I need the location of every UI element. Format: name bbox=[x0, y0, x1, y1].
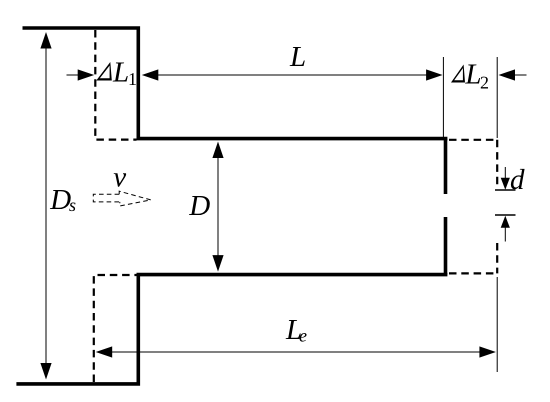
dimension dL2: right tail bbox=[513, 74, 527, 76]
label D bbox=[189, 196, 210, 215]
dimension D: top arrowhead bbox=[212, 142, 223, 159]
dimension d: bottom tick bbox=[495, 214, 516, 216]
dimension dL2: right arrowhead pointing left bbox=[499, 69, 516, 80]
wall: top-right end stub bbox=[444, 139, 448, 194]
dimension dL2: right extension line bbox=[496, 57, 498, 138]
dimension D: vertical line bbox=[217, 152, 219, 260]
dimension Le: horizontal line bbox=[100, 351, 491, 353]
label Ds bbox=[50, 190, 71, 209]
label L bbox=[290, 47, 305, 66]
dashed extension: right vertical lower segment bbox=[496, 243, 498, 273]
dimension L: horizontal line bbox=[146, 74, 438, 76]
wall: bottom-right end stub bbox=[444, 217, 448, 275]
dashed extension: upper-left step (vertical + horizontal) bbox=[95, 30, 136, 140]
label v bbox=[114, 173, 126, 187]
label dL2 bbox=[451, 65, 465, 83]
label dL1 bbox=[96, 62, 112, 81]
velocity arrow (dashed hollow arrow): body bbox=[93, 194, 120, 202]
dimension Le: right arrowhead bbox=[479, 346, 496, 357]
dimension dL2: left extension line bbox=[442, 57, 444, 137]
dimension Ds: bottom arrowhead bbox=[40, 363, 51, 380]
dashed extension: top-right horizontal continuation bbox=[449, 139, 497, 141]
dimension Ds: vertical line bbox=[45, 44, 47, 367]
dimension L: left arrowhead bbox=[142, 69, 159, 80]
dimension Le: left arrowhead bbox=[96, 346, 113, 357]
label Le bbox=[286, 320, 301, 339]
dashed extension: bottom-right horizontal continuation bbox=[449, 272, 497, 274]
dimension Le: right extension line bbox=[496, 277, 498, 372]
dimension dL1: left tail bbox=[67, 74, 82, 76]
dimension Ds: top arrowhead bbox=[40, 32, 51, 49]
dashed extension: lower-left step (vertical + horizontal) bbox=[94, 275, 137, 382]
dimension D: bottom arrowhead bbox=[212, 255, 223, 272]
dimension d: upper arrowhead pointing down bbox=[501, 178, 510, 190]
wall: top outer pipe line + left upper step + top inner pipe line bbox=[23, 28, 448, 139]
dimension d: upper arrow tail bbox=[504, 167, 506, 178]
dimension d: lower arrowhead pointing up bbox=[501, 216, 510, 228]
label d bbox=[511, 169, 525, 189]
dimension d: top tick bbox=[495, 189, 516, 191]
dimension dL1: arrowhead pointing right bbox=[78, 69, 95, 80]
dimension L: right arrowhead bbox=[426, 69, 443, 80]
velocity arrow (dashed hollow arrow): head bbox=[119, 191, 151, 206]
dashed extension: right vertical upper segment bbox=[496, 140, 498, 185]
wall: bottom outer pipe line + left lower step + bottom inner pipe line bbox=[16, 275, 447, 384]
dimension d: lower arrow tail bbox=[504, 227, 506, 242]
